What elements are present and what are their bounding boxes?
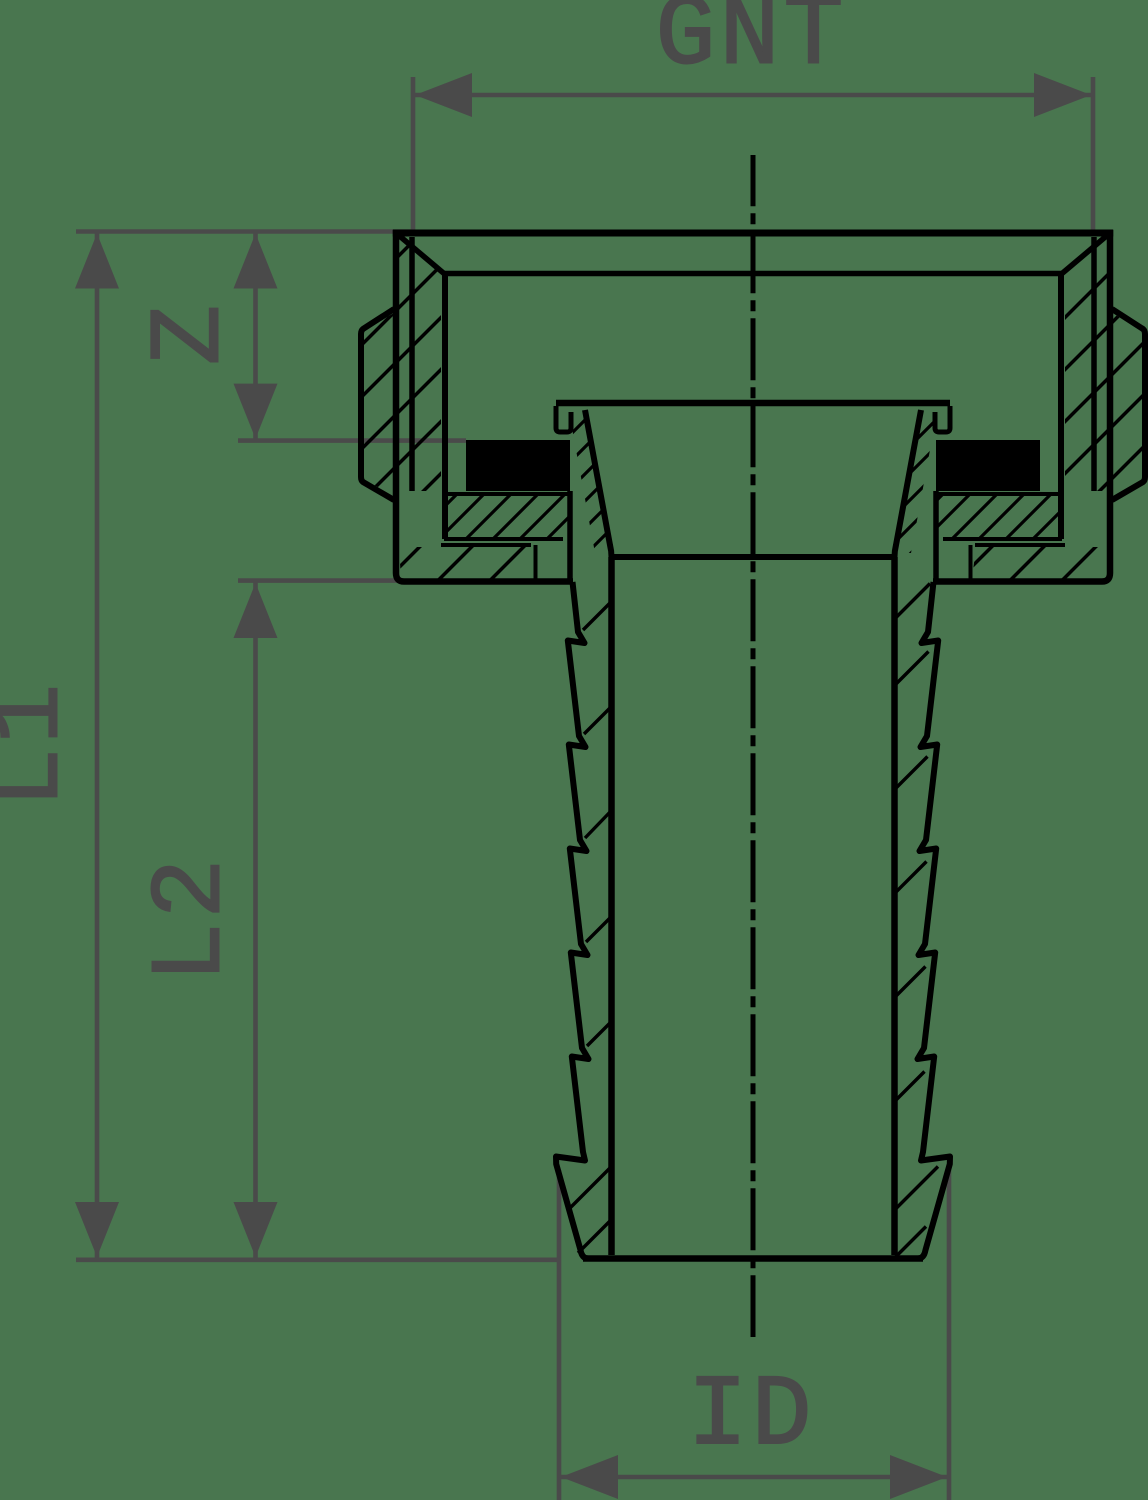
nut bore wall right [1058,274,1064,540]
nut internal thread line right [1091,237,1097,491]
hatch fill: insert funnel left wall strip [569,412,612,553]
nut top left chamfer [396,233,444,274]
ID arrow right [890,1455,947,1499]
top extension line (L1/Z datum) [76,229,412,234]
hatch fill: union nut left grip lug section [363,312,396,497]
seal gasket left (solid) [466,440,570,491]
nut outer wall left with bottom flange [396,230,573,582]
L1 arrow top [75,234,119,289]
nut bore wall left [442,274,448,540]
svg-text:GNT: GNT [655,0,847,94]
barb wall hatch lines right [895,584,939,1259]
ID dimension line [559,1475,949,1480]
svg-text:L1: L1 [0,680,88,808]
bore wall right [891,557,898,1255]
bore wall left [608,557,615,1255]
nut lip top edge left [441,543,531,547]
insert funnel top edge [556,400,950,407]
Z arrow top [234,234,278,289]
GNT arrow left [415,73,472,117]
ID extension line right [947,1170,952,1500]
barb wall hatch lines left [568,602,612,1254]
seal gasket right (solid) [936,440,1040,491]
insert seal-groove hook left [556,406,571,432]
L2 top extension line [238,578,402,583]
ID extension line left [557,1170,562,1500]
insert flange bottom right [943,537,1062,541]
bore step edge [612,554,895,560]
insert flange top shoulder right [936,492,1059,496]
Z arrow bottom [234,384,278,439]
centerline (dash-dot) [751,155,756,1337]
barb serrated outer profile right [918,582,951,1259]
insert funnel inner cone right [895,410,922,557]
insert funnel inner cone left [585,410,612,557]
L1 arrow bottom [75,1202,119,1257]
barb bottom rim edge [583,1255,923,1262]
ID arrow left [561,1455,618,1499]
GNT arrow right [1034,73,1091,117]
insert flange top shoulder left [447,492,570,496]
L1 dimension line [95,232,100,1260]
insert seal-groove hook right [935,406,950,432]
hatch fill: nut lower lip left section [399,547,534,579]
nut top outer edge [393,230,1113,237]
nut top right chamfer [1062,233,1110,274]
barb serrated outer profile left [556,582,589,1259]
svg-text:Z: Z [136,301,249,365]
nut top inner edge [444,271,1062,277]
nut grip lug right outline [1112,309,1145,500]
hatch fill: union nut left wall section [399,238,441,491]
nut lip top edge right [975,543,1065,547]
hatch fill: union nut right wall section [1065,238,1107,491]
svg-text:ID: ID [687,1361,815,1474]
hatch fill: insert flange right section [938,496,1061,537]
nut lip inner vertical right [969,545,973,581]
GNT extension line right [1091,77,1096,230]
nut grip lug left outline [361,309,394,500]
GNT extension line left [411,77,416,230]
L2 dimension line [253,581,258,1259]
L2 arrow top [234,583,278,638]
nut bore vertical at barb right [933,491,939,582]
hatch fill: insert funnel right wall strip [894,412,937,553]
hatch fill: insert flange left section [445,496,568,537]
Z extension line [238,438,466,443]
GNT dimension line [413,93,1093,98]
nut lip inner vertical left [534,545,538,581]
nut bore vertical at barb left [567,491,573,582]
nut internal thread line left [409,237,415,491]
hatch fill: union nut right grip lug section [1110,312,1143,497]
bottom extension line (L1/L2 datum) [76,1258,559,1263]
Z dimension line [253,232,258,441]
svg-text:L2: L2 [137,855,250,983]
insert flange bottom left [444,537,563,541]
L2 arrow bottom [234,1202,278,1257]
nut outer wall right with bottom flange [933,230,1110,582]
hatch fill: nut lower lip right section [972,547,1107,579]
